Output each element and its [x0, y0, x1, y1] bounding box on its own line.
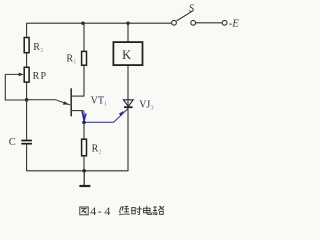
svg-text:S: S: [189, 3, 195, 14]
wire: bottom bus: [26, 170, 128, 172]
wire: wiper feedback loop: [5, 74, 26, 100]
potentiometer RP wiper arrow: [5, 73, 24, 77]
junction: RP lower node: [25, 98, 29, 102]
wire: capacitor to bottom bus: [26, 144, 28, 171]
resistor R1: [82, 51, 87, 65]
wire: switch to supply terminal: [196, 22, 223, 24]
resistor R2: [82, 139, 87, 156]
wire: left branch from top bus to R3: [26, 23, 28, 37]
caption glyph: 时: [132, 206, 142, 214]
svg-text:RP: RP: [33, 71, 48, 82]
svg-text:C: C: [9, 137, 16, 148]
wire: R1 to collector corner: [83, 65, 85, 96]
caption glyph: 路: [153, 206, 164, 214]
junction: emitter node: [82, 121, 86, 125]
caption glyph: 电: [144, 206, 152, 214]
wire: thyristor cathode to bottom bus: [127, 108, 129, 171]
svg-text:-: -: [98, 204, 102, 218]
wire: relay branch from top bus: [127, 23, 129, 42]
potentiometer RP body: [24, 67, 29, 82]
junction: top bus / R1 branch: [81, 22, 84, 25]
svg-text:K: K: [122, 48, 131, 62]
svg-text:-E: -E: [229, 17, 240, 29]
resistor R3: [24, 38, 29, 53]
switch S: [172, 10, 196, 25]
wire: RP lower lead down to capacitor: [26, 82, 28, 140]
capacitor C: [21, 141, 32, 144]
wire: base drive from node to VT1: [27, 100, 70, 105]
wire: R3 to RP: [26, 53, 28, 68]
svg-text:4: 4: [90, 204, 96, 218]
junction: top bus / relay branch: [126, 22, 129, 25]
caption glyph: 延: [119, 206, 129, 214]
wire: R1 branch from top bus: [83, 23, 85, 51]
terminal: negative supply: [222, 20, 227, 25]
wire: R2 to bottom bus: [83, 156, 85, 171]
junction: bottom bus / ground: [82, 169, 86, 173]
transistor VT1: [71, 88, 86, 122]
relay K coil box: [113, 42, 142, 65]
ground: [79, 171, 90, 186]
caption glyph: 图: [80, 207, 88, 215]
wire: relay K to thyristor anode: [127, 65, 129, 100]
caption: 图 4-4 延时电路: [80, 206, 164, 215]
wire: top supply bus: [26, 22, 171, 24]
wire: gate drive from emitter node to VJ: [86, 108, 129, 122]
wire: emitter node to R2: [83, 122, 85, 139]
thyristor VJ: [123, 100, 133, 107]
svg-text:4: 4: [104, 204, 110, 218]
